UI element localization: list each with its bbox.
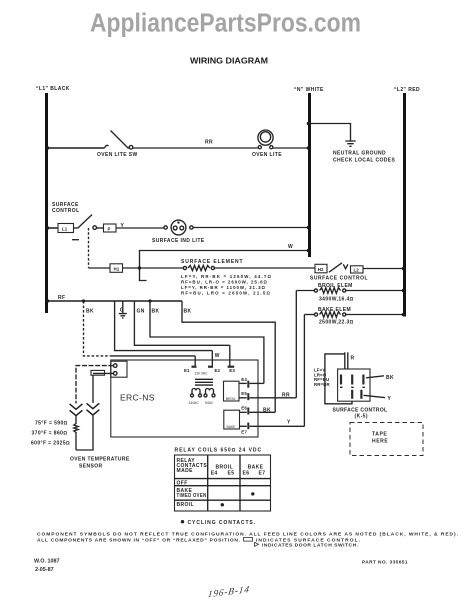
svg-text:MADE: MADE (177, 468, 194, 474)
door latch symbol (255, 542, 259, 546)
feed line L2 red (403, 93, 406, 317)
wire P to ind lamp (116, 227, 164, 229)
wire W riser to N (140, 251, 310, 269)
svg-text:Y: Y (388, 396, 392, 402)
svg-text:E7: E7 (259, 471, 266, 477)
svg-text:OVEN TEMPERATURE: OVEN TEMPERATURE (70, 457, 130, 463)
feed line N white (308, 93, 311, 257)
node L1/oven-lite junction (46, 146, 49, 149)
pin E2 (211, 351, 213, 366)
K5 pin bottom 2 (360, 390, 362, 399)
svg-text:BK: BK (152, 309, 160, 315)
svg-text:600°F = 2025Ω: 600°F = 2025Ω (31, 441, 70, 447)
node L1/surface junction (46, 226, 49, 229)
svg-text:370°F = 860Ω: 370°F = 860Ω (32, 431, 68, 437)
wire junction to element (141, 267, 183, 269)
svg-text:BROIL: BROIL (226, 397, 236, 401)
wire sensor lead A (76, 366, 113, 404)
wire to terminal box P (97, 227, 104, 229)
wire L1 to terminal box (47, 227, 59, 229)
svg-text:BROIL: BROIL (216, 464, 234, 470)
terminal box P (104, 224, 117, 232)
ground symbol (119, 314, 127, 318)
pointer Y (364, 395, 386, 397)
node H1 junction (138, 266, 141, 269)
svg-text:R: R (351, 356, 355, 362)
wire H1 row left (89, 267, 111, 269)
ERC-NS control box (111, 360, 258, 437)
svg-text:BK: BK (86, 309, 94, 315)
node L2/surface junction (402, 267, 406, 271)
wire L2 box to L2 feed (363, 268, 405, 270)
relay BROIL box (224, 381, 240, 401)
feed line L1 black (45, 93, 48, 313)
svg-text:ALL COMPONENTS ARE SHOWN IN “O: ALL COMPONENTS ARE SHOWN IN “OFF” OR “RE… (37, 538, 241, 544)
wire E5 to broil riser (250, 397, 297, 399)
svg-text:AppliancePartsPros.com: AppliancePartsPros.com (90, 10, 361, 38)
node N/oven-lite junction (307, 146, 311, 150)
svg-text:SENSOR: SENSOR (79, 464, 103, 470)
svg-text:BAKE: BAKE (227, 425, 237, 429)
svg-text:E3: E3 (229, 368, 235, 373)
svg-text:WIRING DIAGRAM: WIRING DIAGRAM (190, 57, 268, 66)
switch surface control H2/L2 (329, 263, 342, 272)
svg-text:NEUTRAL GROUND: NEUTRAL GROUND (333, 151, 386, 157)
note cycling contacts (181, 520, 184, 523)
svg-text:H2: H2 (318, 267, 324, 272)
svg-text:RF: RF (58, 295, 65, 301)
svg-text:BAKE: BAKE (248, 464, 264, 470)
svg-text:H1: H1 (114, 267, 120, 272)
relay BAKE box (224, 410, 240, 429)
transformer core (195, 379, 213, 385)
node L2/broil junction (402, 289, 406, 293)
node bus/BK2 junction (148, 299, 151, 302)
wire stub below junction (140, 268, 147, 281)
K5 pin labels (340, 386, 365, 388)
wire (dashed) switch drop to H1 row (88, 228, 90, 268)
svg-text:G: G (120, 308, 124, 314)
resistor broil element (296, 290, 314, 292)
wire bake left vertical (303, 315, 305, 427)
svg-text:“N” WHITE: “N” WHITE (294, 87, 324, 93)
resistor surface element (183, 266, 186, 269)
svg-text:75°F = 590Ω: 75°F = 590Ω (35, 421, 68, 427)
relay table (175, 455, 271, 511)
wire K5 feed R (344, 352, 346, 369)
plug box on lead B (91, 370, 105, 375)
wire E4 (250, 382, 264, 384)
node N/ind-lite junction (307, 226, 311, 230)
svg-text:(K-5): (K-5) (355, 414, 368, 420)
svg-text:LF=Y, RR-BK = 1250W, 44.7Ω: LF=Y, RR-BK = 1250W, 44.7Ω (181, 274, 272, 279)
svg-text:L2: L2 (354, 268, 360, 273)
svg-text:RR: RR (282, 392, 290, 398)
svg-text:5VAC: 5VAC (205, 401, 214, 405)
svg-text:RF=BU, LRO = 2650W, 21.5Ω: RF=BU, LRO = 2650W, 21.5Ω (181, 290, 271, 295)
svg-text:BK: BK (263, 407, 271, 413)
pin E5 (239, 397, 247, 399)
node N/ground junction (307, 122, 311, 126)
svg-text:E5: E5 (241, 391, 247, 396)
wire BK drop to E6 riser (182, 301, 275, 412)
svg-text:INDICATES DOOR LATCH SWITCH: INDICATES DOOR LATCH SWITCH. (262, 542, 359, 548)
svg-text:SURFACE ELEMENT: SURFACE ELEMENT (181, 259, 243, 265)
wire K5 bracket (325, 354, 352, 404)
svg-text:E4: E4 (211, 471, 218, 477)
wire BK drop to E4 riser (150, 301, 264, 383)
svg-text:196-B-14: 196-B-14 (207, 584, 250, 600)
pointer BK (366, 376, 384, 378)
svg-text:24VAC: 24VAC (189, 401, 200, 405)
lamp OVEN LITE (258, 130, 273, 145)
switch OVEN LITE SW (105, 145, 109, 148)
dot broil contact (221, 503, 224, 506)
node L1/RF junction (46, 299, 49, 302)
svg-text:BROIL ELEM: BROIL ELEM (318, 283, 353, 289)
node L2/bake junction (402, 313, 406, 317)
ground symbol (345, 141, 355, 146)
transformer winding 24VAC (192, 389, 200, 395)
svg-text:3400W,16.4Ω: 3400W,16.4Ω (319, 297, 354, 303)
svg-text:E7: E7 (241, 429, 247, 434)
wire H1 to junction (123, 267, 140, 269)
wire GN drop to E3 (134, 301, 229, 345)
pin E1 (194, 356, 196, 366)
svg-text:CHECK LOCAL CODES: CHECK LOCAL CODES (333, 158, 396, 164)
svg-text:E5: E5 (228, 471, 235, 477)
svg-text:OVEN LITE SW: OVEN LITE SW (97, 152, 138, 158)
svg-text:E1: E1 (184, 368, 190, 373)
wire neutral ground branch (310, 124, 351, 141)
transformer winding 5VAC (206, 389, 214, 395)
svg-text:SURFACE IND LITE: SURFACE IND LITE (152, 238, 205, 244)
terminal box L2 (351, 266, 364, 273)
wire broil left vertical (295, 291, 297, 398)
terminal box L1 (58, 224, 74, 233)
svg-text:RR=BR: RR=BR (314, 382, 330, 387)
svg-text:TAPE: TAPE (372, 432, 387, 438)
K5 pin top 2 (351, 375, 353, 385)
pin E6 (240, 411, 247, 413)
terminal box H2 (315, 264, 327, 273)
door latch arrow (343, 264, 348, 269)
svg-text:PART NO. 335651: PART NO. 335651 (362, 560, 408, 566)
wire drop to E2 (115, 301, 213, 351)
lamp SURFACE IND LITE (171, 220, 186, 235)
svg-text:2500W,22.3Ω: 2500W,22.3Ω (319, 320, 354, 326)
ground stub (122, 301, 124, 313)
dot bake contact (251, 492, 254, 495)
wire E6 (250, 411, 276, 413)
wire E7 to bake riser (250, 425, 305, 427)
wire lamp to N (193, 227, 309, 229)
svg-text:W.O. 1087: W.O. 1087 (34, 559, 59, 565)
svg-text:COMPONENT SYMBOLS DO NOT REFLE: COMPONENT SYMBOLS DO NOT REFLECT TRUE CO… (37, 532, 459, 538)
tick below box (72, 239, 79, 241)
connector chevrons right (87, 403, 100, 415)
svg-text:P: P (108, 227, 111, 232)
K5 pin bottom 1 (351, 390, 353, 399)
svg-text:SURFACE CONTROL: SURFACE CONTROL (310, 276, 368, 282)
wire oven lite row left (47, 147, 105, 149)
svg-text:“L1” BLACK: “L1” BLACK (36, 86, 70, 92)
resistor oven temp sensor (74, 416, 78, 450)
wire lamp to N (273, 147, 310, 149)
svg-text:CYCLING CONTACTS.: CYCLING CONTACTS. (188, 520, 256, 526)
pin E4 (239, 382, 247, 384)
wire element to H2 (214, 267, 315, 269)
svg-text:2-05-87: 2-05-87 (35, 567, 54, 573)
svg-text:RF=BU, LR-O = 2600W, 25.6Ω: RF=BU, LR-O = 2600W, 25.6Ω (181, 279, 268, 284)
svg-text:W: W (288, 244, 293, 250)
resistor bake element (304, 314, 314, 316)
K5 pin top 1 (340, 375, 342, 385)
svg-text:“L2” RED: “L2” RED (394, 87, 420, 93)
svg-text:GN: GN (137, 309, 145, 315)
surface control symbol (244, 538, 253, 542)
svg-text:BK: BK (386, 375, 394, 381)
svg-text:E2: E2 (215, 368, 221, 373)
svg-text:L1: L1 (62, 227, 68, 232)
terminal box H1 (110, 264, 123, 273)
svg-text:LF=Y, RR-BR = 1100W, 31.3Ω: LF=Y, RR-BR = 1100W, 31.3Ω (181, 285, 266, 290)
wire RF bus from L1 (47, 300, 183, 302)
svg-text:OFF: OFF (177, 480, 188, 486)
wire BK dashed drop to E1 (84, 301, 113, 356)
sensor connector box on ERC (111, 361, 127, 377)
tape here dashed box (350, 423, 423, 456)
switch surface control (74, 227, 78, 229)
svg-text:ERC-NS: ERC-NS (120, 393, 155, 403)
svg-text:OVEN LITE: OVEN LITE (252, 152, 282, 158)
svg-text:BK: BK (184, 309, 192, 315)
wire sensor lead B (93, 372, 113, 374)
svg-text:E4: E4 (241, 377, 247, 382)
connector chevrons left (70, 404, 83, 416)
K5 pin top 3 (362, 375, 364, 385)
node bus/BK junction (82, 299, 85, 302)
svg-text:Y: Y (287, 420, 291, 426)
wire sensor bottom return (76, 416, 93, 450)
connector K-5 box (338, 369, 370, 401)
wire lead B drop (92, 375, 94, 403)
svg-text:BROIL: BROIL (177, 502, 195, 508)
svg-text:TIMED OVEN: TIMED OVEN (177, 493, 207, 499)
svg-text:E6: E6 (243, 471, 250, 477)
svg-text:CONTROL: CONTROL (52, 208, 80, 214)
pin E3 (229, 345, 231, 365)
svg-text:RR: RR (205, 140, 213, 146)
svg-text:HERE: HERE (372, 439, 388, 445)
svg-text:W: W (215, 353, 220, 359)
svg-text:120 VAC: 120 VAC (195, 371, 209, 375)
wire to lamp (133, 147, 258, 149)
node N/W junction (307, 249, 311, 253)
svg-text:RELAY COILS 650Ω 24 VDC: RELAY COILS 650Ω 24 VDC (175, 448, 262, 454)
svg-text:E6: E6 (241, 405, 247, 410)
pin E7 (240, 425, 247, 427)
